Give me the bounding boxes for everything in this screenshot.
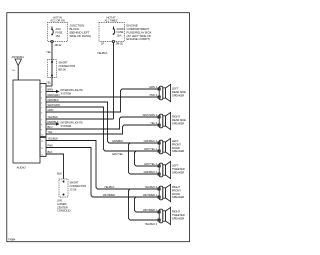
svg-text:LEFT: LEFT (172, 87, 179, 91)
svg-text:YEL 2: YEL 2 (150, 121, 157, 125)
svg-text:WHT/GRN 1: WHT/GRN 1 (143, 113, 158, 117)
svg-text:AUDIO: AUDIO (117, 27, 125, 31)
svg-text:SPEAKER: SPEAKER (172, 149, 184, 153)
svg-text:YEL/BLK: YEL/BLK (104, 185, 115, 189)
svg-text:YEL/BLK 2: YEL/BLK 2 (145, 222, 158, 226)
svg-text:RED/GRN: RED/GRN (48, 93, 60, 97)
svg-text:4B-32: 4B-32 (55, 43, 62, 47)
svg-text:SIDE OF DASH): SIDE OF DASH) (70, 34, 92, 38)
svg-text:TWEETER: TWEETER (172, 167, 185, 171)
svg-text:FUSE: FUSE (117, 30, 124, 34)
svg-text:SPEAKER: SPEAKER (172, 121, 184, 125)
svg-text:GRN/BLK 2: GRN/BLK 2 (144, 139, 158, 143)
svg-text:DOOR: DOOR (172, 146, 180, 150)
svg-text:ALL TIMES: ALL TIMES (105, 19, 118, 23)
svg-text:TWEETER: TWEETER (172, 213, 185, 217)
svg-text:BD-06: BD-06 (59, 67, 67, 71)
svg-text:JC-06: JC-06 (70, 187, 77, 191)
svg-text:4: 4 (41, 102, 43, 104)
svg-text:(ON: (ON (57, 199, 62, 203)
svg-text:AUDIO: AUDIO (17, 166, 27, 170)
svg-text:GRN: GRN (48, 108, 54, 112)
svg-text:INTERIOR LIGHTS: INTERIOR LIGHTS (61, 121, 83, 125)
svg-text:2: 2 (41, 92, 43, 94)
svg-text:SPEAKER: SPEAKER (172, 170, 184, 174)
svg-text:15A: 15A (56, 34, 61, 38)
svg-text:BLK: BLK (57, 172, 62, 176)
svg-text:REAR SIDE: REAR SIDE (172, 118, 186, 122)
svg-text:GRN/BLK 2: GRN/BLK 2 (144, 170, 158, 174)
svg-text:13: 13 (41, 148, 44, 150)
svg-text:SYSTEM: SYSTEM (61, 92, 72, 96)
svg-text:GRY/YEL: GRY/YEL (112, 152, 124, 156)
svg-text:CONSOLE): CONSOLE) (57, 209, 71, 213)
svg-text:3: 3 (41, 97, 43, 99)
svg-text:GRN 1: GRN 1 (149, 85, 157, 89)
svg-text:YEL/BLK 2: YEL/BLK 2 (145, 185, 158, 189)
svg-text:ENGINE COMPT): ENGINE COMPT) (127, 37, 151, 41)
svg-text:GRY/YEL 1: GRY/YEL 1 (144, 147, 158, 151)
svg-text:7: 7 (41, 119, 43, 121)
svg-text:9: 9 (41, 129, 43, 131)
svg-text:LOWER: LOWER (57, 202, 67, 206)
svg-text:YEL/BLK: YEL/BLK (48, 136, 59, 140)
svg-text:YEL/BLK: YEL/BLK (97, 51, 108, 55)
svg-text:FRONT: FRONT (172, 188, 181, 192)
svg-text:GRN/BLK: GRN/BLK (112, 139, 124, 143)
svg-text:Y04: Y04 (12, 70, 16, 72)
svg-text:CENTER: CENTER (57, 205, 68, 209)
svg-text:SPEAKER: SPEAKER (172, 216, 184, 220)
svg-text:WHT/RED 1: WHT/RED 1 (143, 193, 158, 197)
svg-text:RIGHT: RIGHT (172, 185, 180, 189)
svg-text:FUSE: FUSE (56, 31, 63, 35)
svg-text:1: 1 (41, 86, 43, 88)
svg-text:ANTENNA: ANTENNA (12, 55, 25, 59)
svg-text:FRONT: FRONT (172, 142, 181, 146)
svg-text:SHORT: SHORT (59, 61, 68, 65)
svg-text:SYSTEM: SYSTEM (61, 124, 72, 128)
svg-text:PNK: PNK (48, 143, 54, 147)
svg-text:BLU: BLU (48, 125, 53, 129)
svg-text:14: 14 (41, 154, 44, 156)
svg-text:RIGHT: RIGHT (172, 210, 180, 214)
svg-text:BRN: BRN (48, 87, 54, 91)
svg-text:LEFT: LEFT (172, 139, 179, 143)
svg-text:SPEAKER: SPEAKER (172, 93, 184, 97)
svg-text:WHT/GRN: WHT/GRN (48, 103, 60, 107)
svg-text:ACC: ACC (56, 27, 62, 31)
svg-text:WHT/RED 1: WHT/RED 1 (143, 208, 158, 212)
svg-text:DOOR: DOOR (172, 192, 180, 196)
svg-text:15A: 15A (117, 34, 122, 38)
svg-text:ACC OR ON: ACC OR ON (50, 19, 65, 23)
svg-text:SPEAKER: SPEAKER (172, 195, 184, 199)
svg-text:PNK 2: PNK 2 (150, 93, 158, 97)
svg-text:10: 10 (41, 134, 44, 136)
svg-text:YEL/BLK: YEL/BLK (48, 115, 59, 119)
svg-text:SHORT: SHORT (70, 181, 79, 185)
svg-text:INTERIOR LIGHTS: INTERIOR LIGHTS (61, 88, 83, 92)
svg-text:REAR SIDE: REAR SIDE (172, 90, 186, 94)
svg-text:RIGHT: RIGHT (172, 115, 180, 119)
svg-text:GRY/YEL 1: GRY/YEL 1 (144, 162, 158, 166)
svg-text:5: 5 (41, 107, 43, 109)
svg-text:LEFT: LEFT (172, 164, 179, 168)
svg-text:YEL: YEL (46, 50, 51, 54)
svg-text:CONNECTOR: CONNECTOR (59, 64, 76, 68)
svg-text:GRN/BLK: GRN/BLK (48, 98, 60, 102)
svg-text:RED/BLK: RED/BLK (48, 120, 59, 124)
svg-text:CONNECTOR: CONNECTOR (70, 184, 87, 188)
svg-text:1P: 1P (101, 42, 104, 46)
svg-text:6: 6 (41, 112, 43, 114)
svg-text:WHT/RED: WHT/RED (103, 193, 115, 197)
svg-text:BLK: BLK (48, 150, 53, 154)
svg-text:YEL: YEL (46, 81, 51, 85)
svg-text:8: 8 (41, 124, 43, 126)
svg-text:YEL: YEL (48, 130, 53, 134)
svg-text:J/B-02: J/B-02 (116, 42, 124, 46)
svg-text:12: 12 (41, 141, 44, 143)
svg-text:T4084: T4084 (8, 238, 16, 242)
